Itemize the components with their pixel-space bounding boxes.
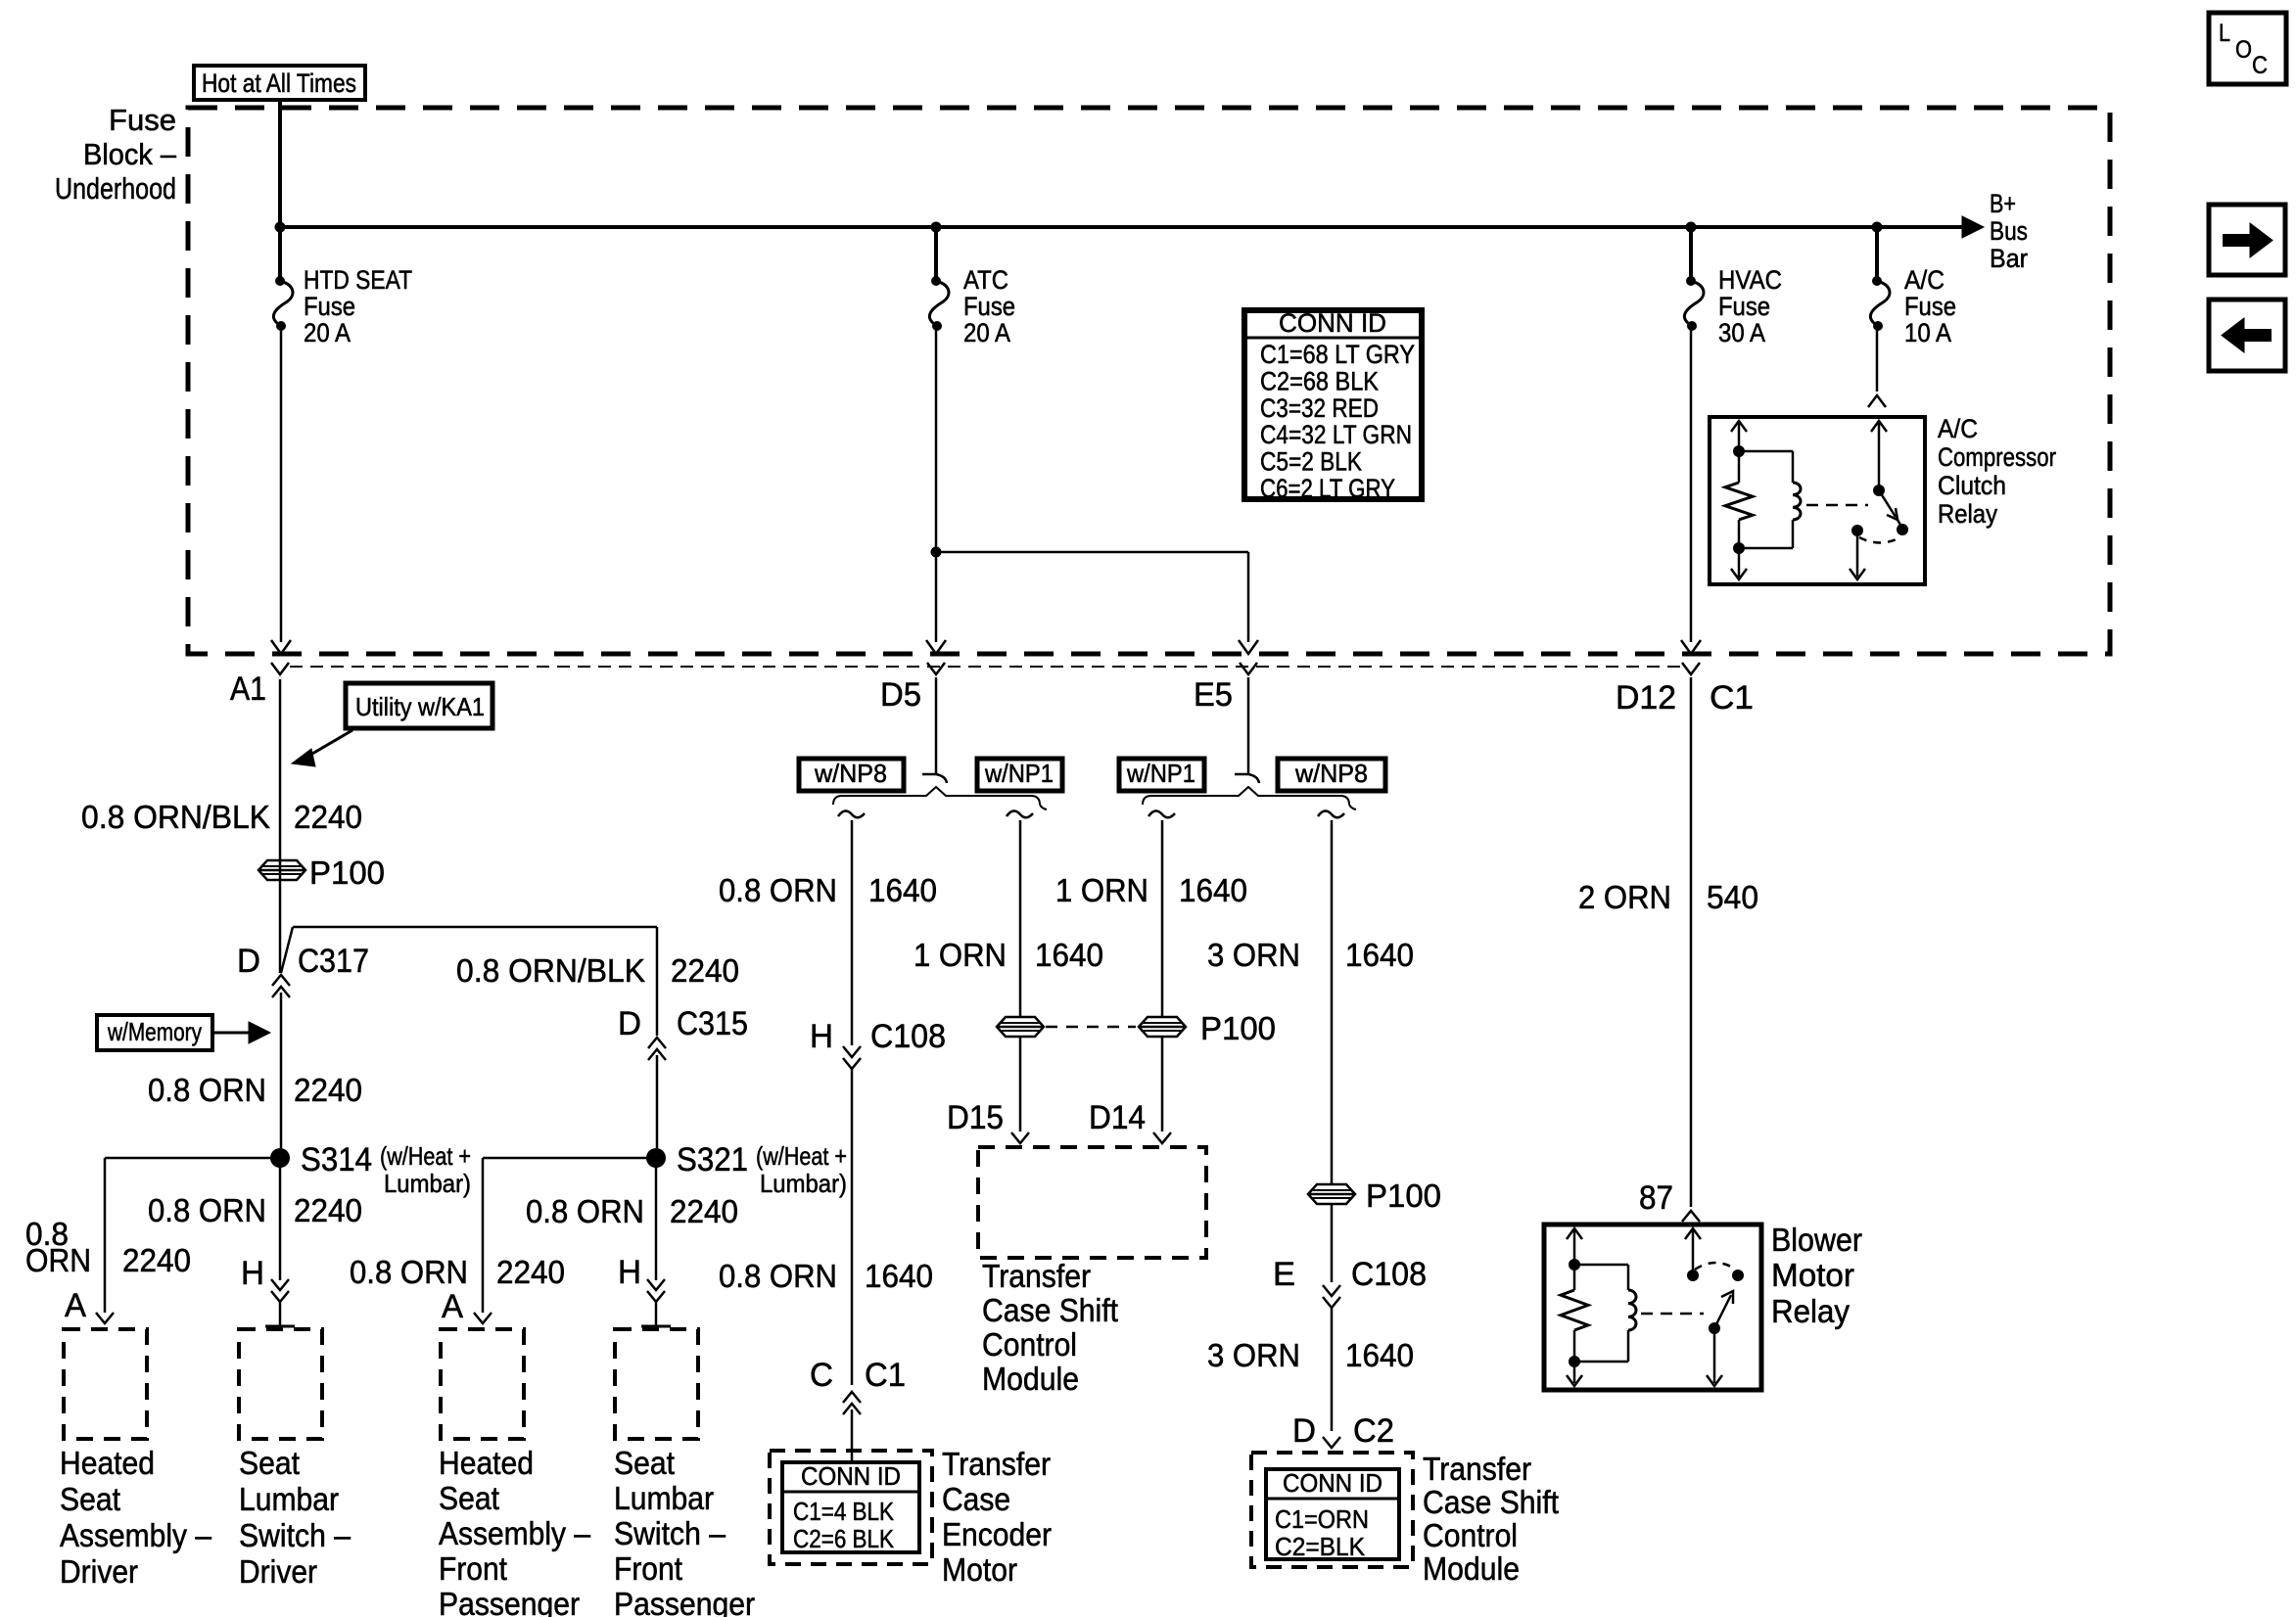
svg-text:Fuse: Fuse xyxy=(109,103,176,137)
svg-text:Heated: Heated xyxy=(60,1445,155,1481)
svg-text:C317: C317 xyxy=(298,943,369,980)
svg-text:Fuse: Fuse xyxy=(1904,292,1956,321)
svg-text:3 ORN: 3 ORN xyxy=(1207,937,1300,973)
svg-text:w/NP1: w/NP1 xyxy=(1126,759,1195,788)
svg-text:Module: Module xyxy=(982,1361,1079,1397)
svg-text:540: 540 xyxy=(1707,879,1758,915)
svg-text:P100: P100 xyxy=(1200,1010,1276,1046)
svg-text:0.8 ORN: 0.8 ORN xyxy=(148,1192,266,1228)
svg-text:Driver: Driver xyxy=(60,1553,138,1590)
svg-text:Lumbar): Lumbar) xyxy=(384,1169,471,1198)
svg-text:A/C: A/C xyxy=(1938,414,1978,443)
svg-text:Encoder: Encoder xyxy=(942,1516,1052,1552)
svg-text:H: H xyxy=(618,1254,641,1291)
svg-text:A: A xyxy=(442,1288,463,1325)
svg-text:O: O xyxy=(2235,36,2252,64)
svg-text:S321: S321 xyxy=(677,1141,748,1178)
svg-text:Seat: Seat xyxy=(60,1481,120,1517)
svg-text:Clutch: Clutch xyxy=(1938,471,2006,500)
svg-text:Fuse: Fuse xyxy=(1718,292,1770,321)
svg-text:Bar: Bar xyxy=(1990,244,2028,273)
svg-text:C2: C2 xyxy=(1353,1412,1394,1450)
svg-text:Transfer: Transfer xyxy=(1423,1451,1531,1487)
svg-text:C4=32 LT GRN: C4=32 LT GRN xyxy=(1260,420,1412,449)
svg-text:C1=ORN: C1=ORN xyxy=(1275,1504,1369,1534)
svg-text:2240: 2240 xyxy=(671,952,739,989)
svg-text:C108: C108 xyxy=(1351,1256,1427,1293)
svg-text:Front: Front xyxy=(614,1550,682,1587)
svg-text:Relay: Relay xyxy=(1771,1293,1850,1329)
svg-text:w/NP8: w/NP8 xyxy=(814,759,887,788)
svg-text:Module: Module xyxy=(1423,1550,1520,1587)
svg-text:2240: 2240 xyxy=(294,1192,362,1228)
svg-text:1640: 1640 xyxy=(865,1258,933,1294)
svg-text:Hot at All Times: Hot at All Times xyxy=(202,69,356,98)
svg-text:0.8 ORN: 0.8 ORN xyxy=(350,1254,468,1290)
svg-text:Compressor: Compressor xyxy=(1938,442,2056,472)
svg-text:0.8 ORN: 0.8 ORN xyxy=(719,872,837,908)
svg-text:20 A: 20 A xyxy=(304,318,351,347)
svg-text:A/C: A/C xyxy=(1904,265,1945,295)
svg-text:ORN: ORN xyxy=(25,1242,91,1278)
svg-text:1 ORN: 1 ORN xyxy=(1055,872,1148,908)
svg-text:1640: 1640 xyxy=(1345,1337,1414,1373)
svg-text:Fuse: Fuse xyxy=(963,292,1015,321)
svg-text:Motor: Motor xyxy=(1771,1257,1854,1293)
svg-text:CONN ID: CONN ID xyxy=(801,1461,901,1491)
svg-text:HVAC: HVAC xyxy=(1718,265,1782,295)
svg-text:E: E xyxy=(1273,1256,1295,1293)
svg-text:Blower: Blower xyxy=(1771,1222,1862,1258)
svg-text:S314: S314 xyxy=(301,1141,372,1178)
svg-text:A: A xyxy=(65,1287,86,1324)
svg-text:C315: C315 xyxy=(677,1005,748,1042)
svg-text:Passenger: Passenger xyxy=(614,1586,755,1617)
svg-text:D: D xyxy=(618,1005,641,1042)
svg-text:3 ORN: 3 ORN xyxy=(1207,1337,1300,1373)
svg-text:Transfer: Transfer xyxy=(942,1446,1051,1482)
svg-text:1640: 1640 xyxy=(868,872,937,908)
svg-text:Control: Control xyxy=(1423,1517,1518,1553)
svg-text:Seat: Seat xyxy=(614,1445,675,1481)
svg-text:Utility w/KA1: Utility w/KA1 xyxy=(355,692,485,721)
svg-text:A1: A1 xyxy=(230,670,266,708)
svg-text:Underhood: Underhood xyxy=(55,171,176,206)
svg-text:Assembly –: Assembly – xyxy=(439,1515,591,1551)
svg-text:Front: Front xyxy=(439,1550,507,1587)
svg-text:C2=68 BLK: C2=68 BLK xyxy=(1260,366,1379,395)
svg-text:H: H xyxy=(810,1018,833,1055)
svg-text:Lumbar: Lumbar xyxy=(239,1481,339,1517)
svg-text:20 A: 20 A xyxy=(963,318,1010,347)
svg-text:87: 87 xyxy=(1639,1179,1673,1217)
svg-text:C1=68 LT GRY: C1=68 LT GRY xyxy=(1260,340,1415,369)
svg-text:D5: D5 xyxy=(880,676,921,714)
svg-text:Lumbar: Lumbar xyxy=(614,1480,714,1516)
svg-text:2240: 2240 xyxy=(496,1254,565,1290)
svg-text:C108: C108 xyxy=(870,1018,946,1055)
svg-text:P100: P100 xyxy=(309,855,385,891)
svg-text:C: C xyxy=(2252,52,2268,79)
svg-text:Case Shift: Case Shift xyxy=(982,1292,1118,1328)
svg-text:Passenger: Passenger xyxy=(439,1586,580,1617)
svg-text:D: D xyxy=(237,943,260,980)
svg-text:C5=2 BLK: C5=2 BLK xyxy=(1260,447,1362,477)
svg-text:2240: 2240 xyxy=(294,1072,362,1108)
svg-text:C1: C1 xyxy=(865,1357,906,1394)
svg-text:(w/Heat +: (w/Heat + xyxy=(756,1141,847,1171)
svg-text:Relay: Relay xyxy=(1938,499,1997,529)
svg-text:0.8 ORN/BLK: 0.8 ORN/BLK xyxy=(456,952,645,989)
svg-text:C: C xyxy=(810,1357,833,1394)
svg-text:HTD SEAT: HTD SEAT xyxy=(304,265,412,295)
svg-text:C6=2 LT GRY: C6=2 LT GRY xyxy=(1260,474,1395,503)
svg-text:D12: D12 xyxy=(1616,679,1676,716)
svg-text:1 ORN: 1 ORN xyxy=(914,937,1007,973)
svg-text:w/NP1: w/NP1 xyxy=(984,759,1054,788)
svg-text:1640: 1640 xyxy=(1179,872,1247,908)
svg-text:1640: 1640 xyxy=(1345,937,1414,973)
svg-text:C3=32 RED: C3=32 RED xyxy=(1260,393,1379,423)
svg-text:Case Shift: Case Shift xyxy=(1423,1484,1559,1520)
svg-text:w/NP8: w/NP8 xyxy=(1294,759,1368,788)
svg-text:1640: 1640 xyxy=(1035,937,1103,973)
svg-text:C1: C1 xyxy=(1710,679,1754,716)
svg-text:C2=6 BLK: C2=6 BLK xyxy=(793,1524,895,1553)
svg-text:10 A: 10 A xyxy=(1904,318,1951,347)
svg-text:2240: 2240 xyxy=(122,1242,191,1278)
svg-text:ATC: ATC xyxy=(963,265,1008,295)
svg-text:H: H xyxy=(241,1255,264,1292)
svg-text:D14: D14 xyxy=(1089,1099,1146,1136)
svg-text:Fuse: Fuse xyxy=(304,292,355,321)
svg-text:Motor: Motor xyxy=(942,1551,1017,1588)
svg-text:L: L xyxy=(2219,20,2230,47)
svg-text:C1=4 BLK: C1=4 BLK xyxy=(793,1497,895,1526)
svg-text:C2=BLK: C2=BLK xyxy=(1275,1532,1366,1561)
svg-text:Case: Case xyxy=(942,1481,1010,1517)
svg-text:2 ORN: 2 ORN xyxy=(1578,879,1671,915)
svg-text:0.8 ORN: 0.8 ORN xyxy=(526,1193,644,1229)
svg-text:Seat: Seat xyxy=(439,1480,499,1516)
svg-text:Control: Control xyxy=(982,1326,1077,1363)
svg-text:CONN ID: CONN ID xyxy=(1283,1468,1382,1498)
svg-text:Assembly –: Assembly – xyxy=(60,1517,212,1553)
svg-text:CONN ID: CONN ID xyxy=(1279,308,1386,338)
svg-text:D15: D15 xyxy=(947,1099,1004,1136)
svg-text:Transfer: Transfer xyxy=(982,1258,1091,1294)
svg-text:Driver: Driver xyxy=(239,1553,317,1590)
svg-text:0.8 ORN: 0.8 ORN xyxy=(719,1258,837,1294)
svg-text:(w/Heat +: (w/Heat + xyxy=(380,1141,471,1171)
svg-text:w/Memory: w/Memory xyxy=(107,1017,202,1046)
svg-text:E5: E5 xyxy=(1194,676,1233,714)
svg-text:0.8 ORN: 0.8 ORN xyxy=(148,1072,266,1108)
svg-text:Switch –: Switch – xyxy=(614,1515,726,1551)
svg-text:2240: 2240 xyxy=(294,799,362,835)
svg-text:Seat: Seat xyxy=(239,1445,300,1481)
svg-text:2240: 2240 xyxy=(670,1193,738,1229)
svg-text:Lumbar): Lumbar) xyxy=(760,1169,847,1198)
svg-text:Heated: Heated xyxy=(439,1445,534,1481)
svg-text:30 A: 30 A xyxy=(1718,318,1765,347)
svg-text:P100: P100 xyxy=(1366,1178,1441,1214)
svg-text:Switch –: Switch – xyxy=(239,1517,351,1553)
svg-text:D: D xyxy=(1292,1412,1316,1450)
svg-text:Block –: Block – xyxy=(83,137,177,171)
svg-text:B+: B+ xyxy=(1990,189,2016,218)
svg-text:Bus: Bus xyxy=(1990,216,2028,246)
svg-text:0.8 ORN/BLK: 0.8 ORN/BLK xyxy=(81,799,270,835)
